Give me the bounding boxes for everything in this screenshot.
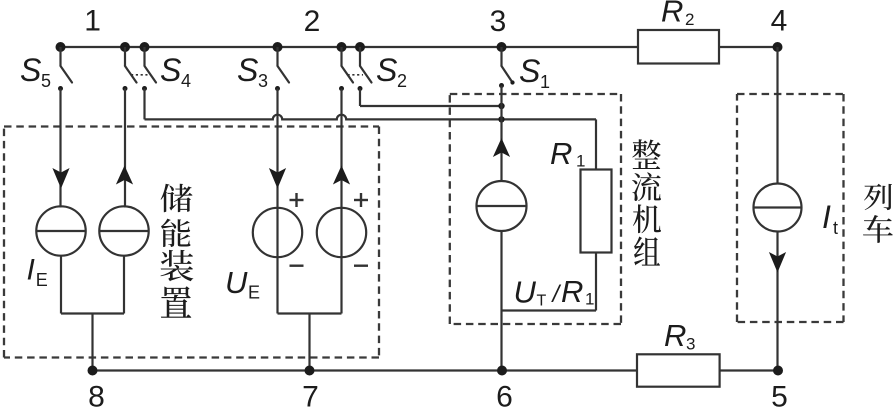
arrow: UE right branch direction (up) [333, 166, 350, 185]
wire: R1 bottom connection [595, 253, 597, 311]
resistor R3 body [637, 354, 720, 386]
junction dot S2 right pole [355, 42, 365, 52]
label 置 [161, 286, 191, 317]
svg-text:E: E [36, 270, 48, 290]
label 装 [160, 250, 193, 281]
svg-text:S: S [20, 52, 41, 88]
wire: S1 branch lower to node 6 [500, 231, 502, 371]
svg-text:7: 7 [302, 381, 319, 408]
wire: IE left branch upper [59, 89, 61, 208]
wire: IE stem to node 8 [91, 314, 93, 371]
minus mark UE right [354, 265, 368, 267]
dashed box: energy storage unit [4, 125, 379, 127]
label 组 [634, 236, 660, 265]
svg-text:S: S [160, 52, 181, 88]
svg-text:4: 4 [771, 5, 788, 38]
voltage source circle UE left [253, 208, 302, 257]
svg-text:/: / [551, 281, 562, 308]
svg-text:R: R [661, 0, 683, 29]
current source circle It [754, 184, 802, 232]
svg-text:I: I [822, 199, 831, 235]
junction dot on S1 branch at y106 [498, 103, 504, 109]
wire: top bus node1-node3 segment [61, 46, 639, 48]
wire: top bus R2-to-node4 segment [719, 46, 778, 48]
svg-text:T: T [537, 293, 547, 310]
svg-text:U: U [225, 265, 248, 300]
node 8 junction dot [88, 366, 98, 376]
svg-text:E: E [248, 283, 260, 303]
node 6 junction dot [497, 366, 507, 376]
arrow: IE right branch current direction (up) [116, 166, 133, 185]
arrow: UE left branch direction (down) [269, 168, 286, 189]
resistor R2 body [638, 30, 719, 64]
svg-text:S: S [237, 52, 258, 88]
arrow: train current direction (down) [769, 252, 786, 273]
voltage source circle UE right [317, 208, 366, 257]
node 5 junction dot [773, 366, 783, 376]
node 7 junction dot [305, 366, 315, 376]
switch S4 right pole [143, 47, 145, 66]
plus mark UE left [290, 199, 304, 201]
junction dot S3 [273, 42, 283, 52]
junction dot S4 left pole [120, 42, 130, 52]
svg-text:5: 5 [41, 71, 51, 91]
current source chord UT/R1 [477, 205, 527, 207]
junction dot S2 left pole [337, 42, 347, 52]
wire: S2 right pole to node below S1 [359, 89, 361, 107]
svg-text:I: I [27, 254, 35, 287]
label 流 [632, 172, 661, 201]
wire: S4 right pole toward R1 with crossover hops [143, 89, 145, 120]
wire: UE left branch through source [276, 89, 278, 314]
svg-text:8: 8 [88, 381, 105, 408]
label 能 [161, 219, 191, 247]
svg-text:U: U [514, 275, 537, 310]
svg-text:4: 4 [181, 71, 191, 91]
wire: UE stem to node 7 [308, 314, 310, 371]
current source circle IE right [99, 206, 148, 255]
switch S1 [500, 47, 502, 66]
switch S3 [276, 47, 278, 66]
arrow: rectifier source direction (up) [493, 138, 510, 157]
label 车 [863, 215, 893, 243]
switch S5 [59, 47, 61, 66]
label 整 (rectifier) [632, 139, 660, 169]
switch S2 right pole [359, 47, 361, 66]
wire: bottom bus node8-node6-R3 segment [93, 369, 638, 371]
arrow: IE left branch current direction (down) [52, 168, 69, 189]
svg-text:S: S [519, 53, 540, 89]
svg-text:R: R [664, 318, 686, 353]
svg-text:2: 2 [685, 10, 694, 29]
node 3 junction dot (S1) [497, 42, 507, 52]
svg-text:1: 1 [540, 72, 550, 92]
minus mark UE left [290, 265, 304, 267]
current source chord It [754, 206, 802, 208]
wire: S1 branch upper [500, 86, 502, 182]
wire: train branch upper [776, 47, 778, 184]
svg-text:R: R [550, 136, 572, 171]
junction dot on S1 branch at y120 [498, 116, 504, 122]
junction dot S4 right pole [140, 42, 150, 52]
dashed box: rectifier unit [450, 93, 621, 95]
resistor R1 body [581, 170, 612, 253]
wire: IE right branch lower [123, 256, 125, 314]
current source chord IE right [99, 230, 148, 232]
svg-text:5: 5 [771, 381, 788, 408]
svg-text:1: 1 [576, 152, 585, 171]
current source circle IE left [36, 206, 85, 255]
switch S2 mechanical link (dashed) [348, 74, 364, 76]
current source chord IE left [36, 230, 85, 232]
switch S4 mechanical link (dashed) [131, 74, 148, 76]
svg-text:1: 1 [585, 290, 594, 309]
node 4 junction dot [773, 42, 783, 52]
current source circle UT/R1 [477, 181, 527, 231]
svg-text:3: 3 [490, 5, 507, 38]
wire: R1 top connection [595, 119, 597, 169]
label 储 (storage) [161, 184, 193, 213]
svg-text:2: 2 [304, 5, 321, 38]
switch S2 left pole [340, 47, 342, 66]
plus mark UE right [354, 199, 368, 201]
wire: IE right branch upper [124, 89, 126, 208]
node 1 junction dot (S5) [56, 42, 66, 52]
svg-text:2: 2 [397, 71, 407, 91]
switch S4 left pole [124, 47, 126, 66]
wire: UE right branch through source [340, 89, 342, 314]
svg-text:t: t [833, 218, 838, 238]
dashed box: train [737, 93, 844, 95]
label 列 (train) [864, 184, 892, 210]
wire: UE bottom tie bar [278, 312, 342, 314]
svg-text:S: S [376, 52, 397, 88]
svg-text:6: 6 [496, 381, 513, 408]
wire: IE left branch lower [60, 256, 62, 314]
svg-text:3: 3 [258, 71, 268, 91]
wire: IE bottom tie bar [61, 312, 124, 314]
wire: train branch lower [776, 232, 778, 371]
wire: bottom bus R3-to-node5 segment [720, 369, 778, 371]
label 机 [633, 204, 661, 233]
svg-text:1: 1 [84, 5, 101, 38]
svg-text:3: 3 [686, 335, 695, 354]
svg-text:R: R [561, 274, 583, 309]
